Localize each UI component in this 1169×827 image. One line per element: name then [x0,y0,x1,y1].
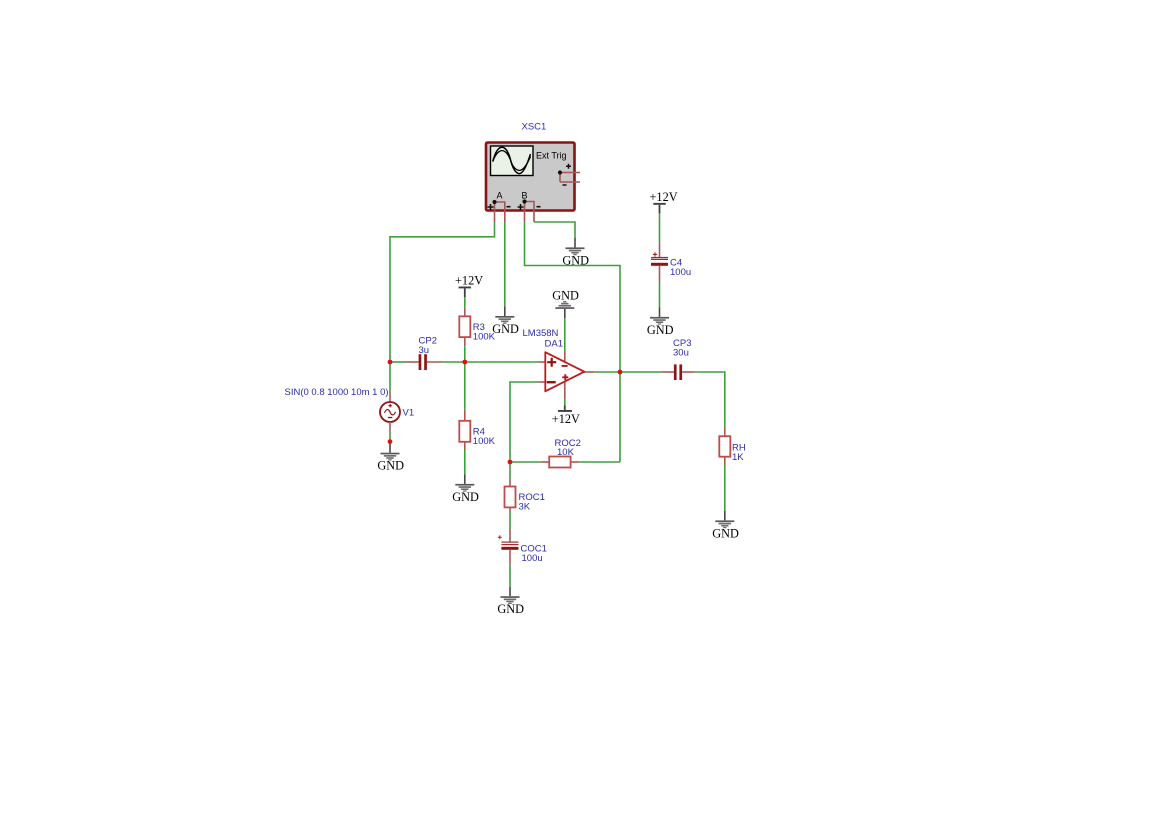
oscilloscope XSC1 body [486,143,575,211]
svg-text:DA1: DA1 [545,339,563,350]
ground (R4) [452,475,479,504]
wire COC1 to ground [509,565,511,587]
resistor ROC1 [505,479,516,512]
wire -input to feedback node [510,382,539,462]
ground (COC1) [497,587,524,616]
channel B pin stubs [522,199,534,222]
wire node to V1 [389,362,391,393]
svg-text:+12V: +12V [455,273,483,287]
label R3 100K [473,322,496,343]
wire CP3 to RH [695,372,725,428]
svg-text:LM358N: LM358N [523,328,559,339]
svg-text:GND: GND [377,459,404,473]
label COC1 100u [521,544,547,565]
wire input node to CP2 [390,361,406,363]
label R4 100K [473,427,496,448]
svg-text:100u: 100u [522,553,543,564]
wire op-amp V+ pin to +12V [564,400,566,406]
label CP3 30u [673,338,691,359]
svg-text:B: B [522,191,528,201]
wire C4 to ground [659,282,661,308]
svg-text:A: A [497,191,503,201]
wire ground to op-amp V- pin [564,318,566,351]
node junction (feedback) [508,460,513,465]
capacitor CP3 [661,364,695,380]
resistor RH [719,428,730,466]
wire ROC1 to COC1 [509,512,511,529]
op-amp DA1 [539,352,595,400]
svg-text:3K: 3K [519,502,531,513]
resistor ROC2 [541,457,579,468]
capacitor COC1 [498,529,519,565]
ground (V1) [377,443,404,472]
node junction (R3/R4) [462,360,467,365]
wire CP2 to R node [444,361,539,363]
svg-text:V1: V1 [403,407,415,418]
svg-text:+12V: +12V [650,190,678,204]
svg-text:1K: 1K [732,452,744,463]
power +12V (op-amp) [552,406,580,426]
svg-text:100u: 100u [670,267,691,278]
channel A pin stubs [492,200,504,222]
node junction (input/V1) [388,360,393,365]
wire V1 to ground [389,432,391,444]
svg-text:100K: 100K [473,332,496,343]
capacitor C4 [651,243,668,283]
label CP2 3u [419,336,437,357]
svg-text:GND: GND [497,602,524,616]
wire R4 to ground [464,450,466,475]
label C4 100u [670,258,691,279]
label V1 [403,407,415,418]
label ROC2 10K [555,438,581,458]
wire scope B+ to output node [525,222,621,462]
svg-text:Ext Trig: Ext Trig [536,151,567,161]
wire feedback node down to ROC1 [509,462,511,479]
wire node to R4 [464,362,466,410]
wire feedback node to ROC2 [510,461,541,463]
label LM358N DA1 [523,328,563,350]
wire ROC2 to output column [579,461,620,463]
wire op-amp output to node [594,371,661,373]
resistor R3 [459,308,470,346]
svg-text:GND: GND [647,323,674,337]
svg-text:100K: 100K [473,436,496,447]
node junction (V1 ground) [388,439,393,444]
channel B pin labels [518,191,541,211]
svg-text:30u: 30u [673,348,689,359]
power +12V (R3) [455,273,483,297]
wire scope B- to ground [534,222,575,238]
power +12V (C4) [650,190,678,214]
svg-text:GND: GND [712,526,739,540]
label XSC1 [522,122,547,133]
wire +12V to R3 [464,297,466,308]
svg-text:XSC1: XSC1 [522,122,547,133]
resistor R4 [459,410,470,450]
wire scope A- to ground [504,222,506,307]
wire RH to ground [724,466,726,511]
channel A pin labels [488,191,511,211]
label RH 1K [732,443,746,464]
svg-text:GND: GND [492,322,519,336]
ground (RH) [712,511,739,540]
wire +12V to C4 [659,213,661,242]
source V1 [380,393,400,432]
svg-text:GND: GND [552,288,579,302]
ground (scope A-) [492,307,519,336]
ground (C4) [647,308,674,337]
svg-text:GND: GND [562,253,589,267]
label SIN source [285,387,389,398]
wire scope A+ to input node [390,222,495,362]
ground (scope B-) [562,238,589,267]
node junction (output) [618,370,623,375]
wire R3 to input node [464,346,466,362]
svg-text:SIN(0 0.8 1000 10m 1 0): SIN(0 0.8 1000 10m 1 0) [285,387,389,398]
ground (op-amp top, inverted) [552,288,579,318]
svg-text:+12V: +12V [552,412,580,426]
capacitor CP2 [406,354,444,370]
label ROC1 3K [519,492,545,513]
ext trig pin wires [558,164,580,185]
svg-text:GND: GND [452,490,479,504]
